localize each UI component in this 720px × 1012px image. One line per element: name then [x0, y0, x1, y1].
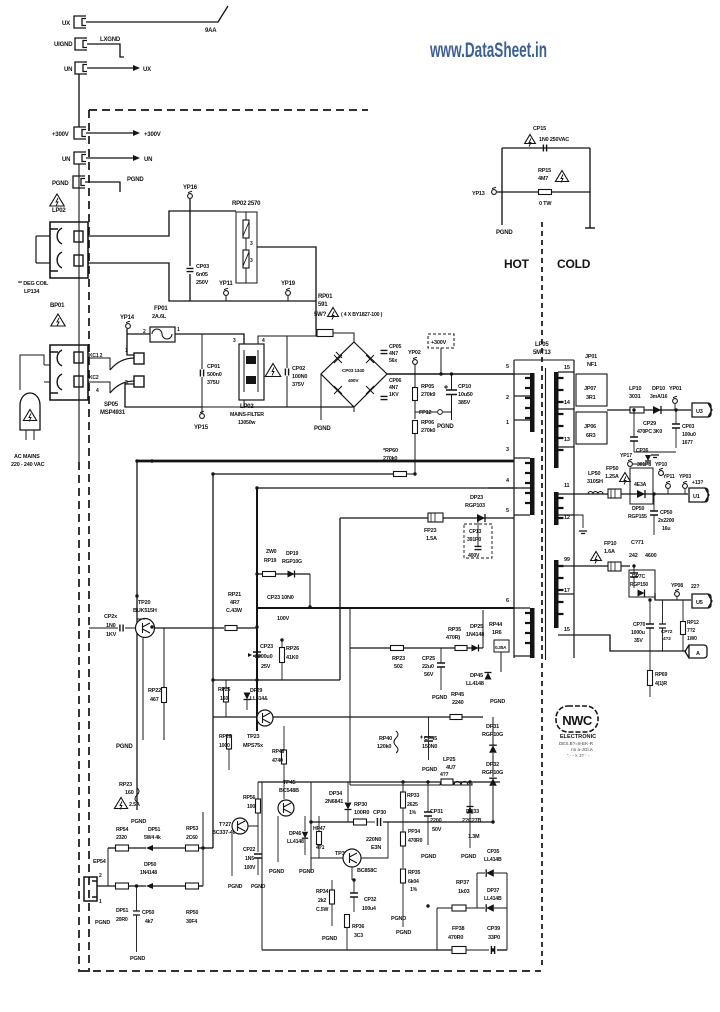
svg-text:TP45: TP45: [283, 780, 295, 786]
svg-text:35V: 35V: [634, 638, 643, 644]
svg-text:RGP150: RGP150: [630, 582, 648, 588]
capacitor CP15: [543, 145, 546, 152]
wire RP02 to RP01: [257, 247, 316, 329]
resistor RP01: [317, 330, 333, 337]
svg-text:www.DataSheet.in: www.DataSheet.in: [429, 39, 547, 62]
svg-text:MSP4931: MSP4931: [100, 410, 126, 416]
wire CP03s top: [675, 410, 677, 424]
svg-text:5W4 4k: 5W4 4k: [144, 835, 161, 841]
diode DP23: [477, 514, 485, 522]
wire into RP01: [316, 329, 317, 333]
svg-text:270k0: 270k0: [421, 428, 435, 434]
transformer primary winding lower: [530, 458, 535, 515]
wire YP14 to switch: [127, 329, 134, 355]
wire tap s11: [558, 493, 574, 495]
wire YP01 stub: [674, 404, 676, 410]
wire tap p5b: [514, 514, 530, 516]
diode DP25: [472, 645, 479, 652]
wire CP50b bottom: [136, 915, 138, 952]
svg-text:2: 2: [99, 873, 102, 879]
svg-text:1677: 1677: [682, 440, 693, 446]
svg-text:5: 5: [506, 508, 509, 514]
wire RP26 top: [281, 640, 283, 648]
svg-text:1N4148: 1N4148: [466, 632, 484, 638]
node +300V box: [428, 334, 454, 348]
svg-text:CP23: CP23: [260, 644, 273, 650]
connector U1: [689, 488, 709, 502]
svg-text:NF1: NF1: [587, 362, 597, 368]
wire y950 a: [262, 949, 452, 951]
dashed border bottom: [80, 970, 541, 972]
svg-text:3: 3: [506, 447, 509, 453]
svg-text:100R0: 100R0: [354, 810, 369, 816]
wire loop y518 FP23: [340, 517, 514, 519]
wire tap p6: [514, 607, 530, 609]
wire RP60 right: [407, 473, 415, 475]
wire tap s12: [558, 514, 574, 516]
wire tap s15: [558, 371, 574, 373]
svg-text:RP54: RP54: [116, 827, 128, 833]
svg-text:RP34: RP34: [316, 889, 328, 895]
svg-text:PGND: PGND: [432, 695, 447, 701]
svg-text:RP01: RP01: [318, 294, 333, 300]
wire CP29 top: [633, 410, 635, 437]
wire RP37 right: [466, 907, 485, 909]
wire y574: [257, 573, 310, 575]
wire RP22 down: [163, 703, 165, 740]
wire RP21 node to RP22: [163, 628, 165, 687]
svg-text:LP10: LP10: [629, 386, 641, 392]
wire UIGND to LXGND: [87, 44, 124, 57]
inductor LP50: [588, 492, 603, 495]
svg-text:DP10: DP10: [652, 386, 665, 392]
svg-text:13050w: 13050w: [238, 420, 256, 426]
svg-text:310SH: 310SH: [587, 479, 603, 485]
wire RP26 bottom: [281, 663, 283, 680]
wire RP21 to bus: [237, 627, 257, 629]
diode DP46: [302, 832, 308, 838]
svg-text:11: 11: [564, 483, 570, 489]
wire LP25 left: [350, 784, 440, 786]
wire FP12 left: [415, 411, 437, 413]
svg-text:CP03 1340: CP03 1340: [342, 368, 365, 374]
svg-text:CP36: CP36: [636, 448, 648, 454]
svg-text:6: 6: [506, 598, 509, 604]
wire inlet stub1: [25, 430, 27, 440]
svg-text:9AA: 9AA: [205, 28, 217, 34]
wire CP10 to PGND: [451, 412, 453, 420]
wire bus to TP20: [136, 461, 138, 619]
svg-text:2625: 2625: [407, 802, 418, 808]
resistor RP15: [539, 190, 552, 195]
svg-text:RP06: RP06: [421, 420, 434, 426]
svg-text:PP34: PP34: [408, 829, 420, 835]
svg-text:7?2: 7?2: [687, 628, 695, 634]
wire y886 c: [153, 885, 186, 887]
resistor RP25: [224, 688, 229, 702]
svg-text:CP01: CP01: [207, 364, 220, 370]
svg-text:591: 591: [318, 302, 328, 308]
svg-text:100u0: 100u0: [682, 432, 696, 438]
wire +300V rail: [387, 373, 514, 375]
svg-text:PGND: PGND: [314, 426, 331, 432]
wire RP47 top: [318, 816, 320, 831]
svg-text:4R7: 4R7: [230, 600, 240, 606]
svg-text:DP50: DP50: [144, 862, 156, 868]
resistor RP26: [280, 648, 285, 663]
capacitor CP05: [381, 350, 388, 353]
wire BP01 to switch b: [88, 382, 110, 393]
svg-text:UX: UX: [143, 67, 151, 73]
svg-text:1N5: 1N5: [245, 856, 254, 862]
svg-text:ZW0: ZW0: [266, 549, 277, 555]
connector BP54: [84, 877, 97, 901]
wire BP02 left loop: [35, 236, 37, 263]
test point YP11: [224, 291, 229, 296]
resistor RP32: [441, 779, 453, 785]
svg-text:LL414B: LL414B: [484, 896, 502, 902]
diode DP50: [637, 490, 645, 498]
svg-text:BP01: BP01: [50, 303, 65, 309]
svg-text:JP06: JP06: [584, 424, 596, 430]
wire bus to TP20 b: [137, 618, 145, 620]
resistor RP26b: [227, 735, 232, 749]
svg-text:FP01: FP01: [154, 306, 168, 312]
wire CP70 down: [649, 628, 651, 651]
wire TP27 emitter down: [231, 834, 233, 876]
wire CP01 top: [201, 334, 203, 369]
warning triangle BP02: [50, 194, 64, 206]
wire CP50b top: [136, 886, 138, 911]
svg-text:RP15: RP15: [538, 168, 551, 174]
svg-text:PGND: PGND: [496, 230, 513, 236]
svg-text:470R0: 470R0: [408, 838, 423, 844]
wire DP32 bottom: [492, 786, 494, 822]
wire x137 bottom: [136, 770, 138, 810]
ptc RP02 element 2: [243, 250, 249, 268]
svg-text:DP19: DP19: [286, 551, 298, 557]
zener DP34: [345, 803, 352, 810]
svg-text:LL414B: LL414B: [484, 857, 502, 863]
wire CP32 top: [353, 880, 355, 893]
svg-text:160: 160: [220, 696, 228, 702]
wire output U3: [607, 409, 691, 411]
wire TP35 base: [311, 857, 343, 859]
test point YP17: [628, 462, 633, 467]
svg-text:YP08: YP08: [671, 583, 683, 589]
wire DP70 to U5: [655, 593, 691, 600]
svg-text:1N4148: 1N4148: [140, 870, 157, 876]
wire CP71 down: [633, 577, 635, 588]
svg-text:RP33: RP33: [407, 793, 419, 799]
capacitor CP22: [254, 854, 262, 858]
wire x311: [310, 782, 312, 872]
wire tap p2: [514, 395, 530, 397]
wire transformer secondary rail: [573, 360, 575, 658]
svg-text:CP70: CP70: [633, 622, 645, 628]
svg-text:250V: 250V: [196, 280, 209, 286]
svg-text:DP25: DP25: [470, 624, 483, 630]
wire YP02 stub: [414, 365, 416, 374]
wire CP31 down: [427, 816, 429, 845]
connector U3: [692, 403, 712, 417]
capacitor CP29: [630, 437, 638, 441]
wire DP31 bottom: [492, 753, 494, 777]
wire DP33 top: [469, 782, 471, 806]
svg-text:CP30: CP30: [373, 810, 386, 816]
svg-text:DP50: DP50: [632, 506, 644, 512]
svg-text:22?: 22?: [691, 584, 699, 590]
test point YP16: [188, 194, 193, 199]
wire UN2 arrow: [86, 157, 133, 159]
svg-text:YP16: YP16: [183, 185, 198, 191]
wire y950 b: [466, 949, 489, 951]
svg-text:220N0: 220N0: [366, 837, 381, 843]
svg-text:+13?: +13?: [692, 480, 703, 486]
bead box LP07: [576, 374, 607, 406]
svg-text:56V: 56V: [424, 672, 434, 678]
svg-text:RGP10G: RGP10G: [282, 559, 302, 565]
svg-text:AC MAINS: AC MAINS: [14, 454, 40, 460]
diode DP35: [486, 869, 494, 877]
svg-text:PGND: PGND: [437, 424, 454, 430]
resistor RP69: [648, 671, 653, 686]
wire output U1: [574, 493, 688, 495]
transformer secondary winding mid: [554, 492, 559, 525]
svg-text:MAINS-FILTER: MAINS-FILTER: [230, 412, 264, 418]
resistor RP05: [413, 388, 418, 401]
wire UN1 arrow: [87, 67, 133, 69]
transformer secondary winding lower: [554, 560, 559, 628]
svg-text:4U7: 4U7: [446, 765, 456, 771]
svg-text:U5: U5: [696, 600, 703, 606]
wire bridge bottom tie: [353, 407, 355, 412]
wire +300V box stem: [440, 348, 442, 374]
wire gate drive vert: [482, 610, 484, 648]
diode DP10: [653, 406, 661, 414]
svg-text:PGND: PGND: [228, 884, 243, 890]
capacitor CP24: [120, 625, 123, 632]
svg-text:RGP10G: RGP10G: [482, 770, 503, 776]
svg-text:20R0: 20R0: [116, 917, 128, 923]
svg-text:C?71: C?71: [631, 540, 644, 546]
wire x477: [476, 873, 478, 908]
wire CP02 to RP01 node: [287, 329, 316, 336]
wire x108: [107, 848, 109, 886]
wire CP22 down: [257, 858, 259, 875]
svg-text:RP46: RP46: [272, 749, 284, 755]
svg-text:RP26: RP26: [219, 734, 231, 740]
test point YP11r: [666, 484, 671, 489]
svg-text:MPS75x: MPS75x: [243, 743, 264, 749]
wire PGND stub: [85, 182, 120, 192]
svg-text:4?1: 4?1: [316, 845, 325, 851]
svg-text:UIGND: UIGND: [54, 42, 73, 48]
svg-text:15: 15: [564, 627, 570, 633]
ptc RP02 box: [236, 212, 257, 283]
capacitor CP32: [350, 893, 358, 897]
transistor TP27: [232, 818, 248, 834]
svg-text:502: 502: [394, 664, 403, 670]
wire CP29 down: [633, 441, 635, 452]
wire x437 down: [436, 908, 438, 950]
zener CP36: [645, 455, 651, 461]
svg-text:COLD: COLD: [557, 257, 591, 271]
wire RP15 right: [552, 191, 590, 193]
capacitor CP72: [659, 624, 666, 628]
svg-text:4N7: 4N7: [389, 351, 398, 357]
capacitor CP50 electrolytic: [650, 511, 658, 515]
svg-text:FP50: FP50: [606, 466, 618, 472]
wire RP05 to RP06: [414, 401, 416, 419]
svg-text:100V: 100V: [277, 616, 290, 622]
wire LP02 to CP02: [258, 336, 287, 344]
wire TP45 down: [277, 816, 279, 862]
transistor TP20: [136, 619, 155, 638]
resistor RP33: [401, 792, 406, 808]
svg-text:CP29: CP29: [643, 421, 656, 427]
svg-text:CP2x: CP2x: [104, 614, 118, 620]
diode DP02: [366, 355, 374, 363]
svg-text:400V: 400V: [468, 553, 480, 559]
inductor LP25: [440, 782, 468, 786]
svg-text:PGND: PGND: [299, 869, 314, 875]
svg-text:( 4 X BY1827-100 ): ( 4 X BY1827-100 ): [341, 312, 383, 318]
svg-text:4k7: 4k7: [145, 919, 153, 925]
svg-text:100V: 100V: [244, 865, 256, 871]
wire RP35c down: [402, 883, 404, 927]
svg-text:470R0: 470R0: [448, 935, 463, 941]
wire y848 b: [129, 847, 146, 849]
wire TP35 collector: [361, 822, 388, 858]
svg-text:YP03: YP03: [679, 474, 691, 480]
capacitor CP10 electrolytic: [446, 390, 457, 395]
svg-text:LP50: LP50: [588, 471, 600, 477]
wire y848 d: [199, 847, 213, 849]
ptc RP02 element 1: [243, 220, 249, 238]
svg-text:UX: UX: [62, 21, 70, 27]
svg-text:375U: 375U: [207, 380, 220, 386]
svg-text:PGND: PGND: [251, 884, 266, 890]
capacitor CP50b: [133, 911, 140, 915]
bead LP10: [630, 407, 644, 413]
resistor RP56: [256, 799, 261, 813]
resistor RP50: [186, 883, 199, 889]
resistor RP45b: [450, 715, 462, 720]
diode DP51 arrow: [146, 845, 153, 851]
bridge rectifier DP01-DP04: [321, 342, 387, 407]
svg-text:C.43W: C.43W: [226, 608, 243, 614]
capacitor CP70 electrolytic: [646, 624, 654, 628]
svg-text:DP7C: DP7C: [632, 574, 645, 580]
svg-text:16u: 16u: [662, 526, 670, 532]
svg-text:CP50: CP50: [660, 510, 672, 516]
capacitor CP13: [475, 546, 482, 549]
capacitor CP39: [491, 946, 494, 954]
svg-text:0.35A: 0.35A: [495, 645, 507, 650]
wire BP02 left stub2: [36, 262, 50, 264]
resistor RP54: [116, 845, 129, 851]
resistor RP22: [162, 688, 167, 703]
svg-text:RP02 2570: RP02 2570: [232, 201, 261, 207]
wire CP03s down: [675, 428, 677, 448]
wire y886 a: [97, 885, 116, 887]
wire RP34 down: [331, 904, 333, 926]
svg-text:RP21: RP21: [228, 592, 241, 598]
wire y848 c: [153, 847, 186, 849]
wire inlet to BP01 a: [44, 364, 50, 366]
svg-text:RP25: RP25: [218, 687, 230, 693]
svg-text:391P0: 391P0: [467, 537, 481, 543]
test point YP14: [126, 324, 131, 329]
svg-text:PGND: PGND: [461, 854, 476, 860]
svg-text:2: 2: [143, 329, 146, 335]
junction dots: [255, 572, 258, 575]
svg-text:100: 100: [247, 804, 255, 810]
svg-text:CP50: CP50: [142, 910, 154, 916]
svg-text:2C60: 2C60: [186, 835, 198, 841]
resistor RP35c: [401, 869, 406, 883]
wire inlet loop: [20, 355, 44, 390]
diode DP50 arrow: [146, 883, 153, 889]
transformer core: [545, 368, 547, 660]
wire DP33 down: [469, 814, 471, 848]
wire CP15 left: [501, 148, 503, 225]
transformer secondary winding upper: [554, 372, 559, 468]
svg-text:10u50: 10u50: [458, 392, 473, 398]
svg-text:CP06: CP06: [389, 378, 401, 384]
svg-text:BC858C: BC858C: [357, 868, 377, 874]
diode DP03: [334, 386, 342, 394]
warning triangle RP01: [328, 308, 339, 317]
wire sense down: [500, 652, 502, 672]
wire YP03 stub: [684, 489, 686, 494]
svg-text:DP34: DP34: [329, 791, 343, 797]
wire CP50 down: [653, 515, 655, 535]
wire BP02 left stub1: [36, 235, 50, 237]
svg-text:1k03: 1k03: [458, 889, 470, 895]
svg-text:RP45: RP45: [451, 692, 464, 698]
svg-text:2240: 2240: [452, 700, 464, 706]
wire +300V arrow: [86, 132, 133, 134]
diode DP32: [489, 778, 497, 786]
test point YP01: [673, 399, 678, 404]
wire connector column upper: [78, 74, 80, 127]
wire RP69 down: [649, 686, 651, 697]
svg-text:120k0: 120k0: [377, 744, 391, 750]
wire CP02 top: [286, 336, 288, 368]
wire RP06 down: [414, 434, 416, 474]
svg-text:*RP60: *RP60: [383, 448, 398, 454]
svg-text:1R6: 1R6: [492, 630, 502, 636]
svg-text:PGND: PGND: [422, 767, 437, 773]
wire bus x340: [339, 518, 341, 680]
wire CP24 right: [125, 627, 136, 629]
svg-text:UN: UN: [64, 67, 72, 73]
svg-text:2200u0: 2200u0: [255, 654, 273, 660]
wire RP72 top: [682, 600, 684, 622]
svg-text:4M7: 4M7: [538, 176, 548, 182]
connector A: [685, 645, 707, 658]
wire CP24 left: [89, 627, 118, 629]
diode DP29: [244, 693, 251, 700]
wire TP20 emitter down: [142, 638, 144, 740]
svg-text:6n05: 6n05: [196, 272, 208, 278]
svg-text:RP69: RP69: [655, 672, 667, 678]
resistor RP37: [452, 905, 466, 911]
wire YP11r stub: [667, 489, 669, 494]
svg-text:YP14: YP14: [120, 315, 135, 321]
